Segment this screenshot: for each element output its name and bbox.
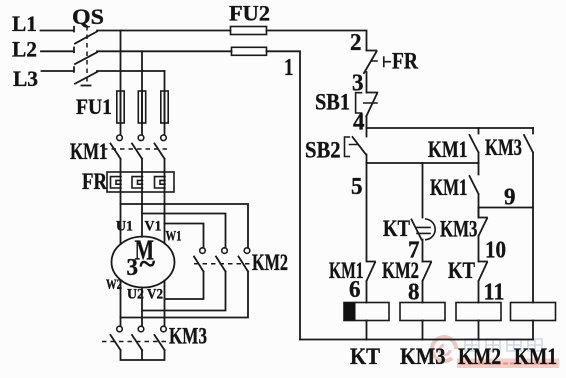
wire V2 drop (164, 281, 166, 327)
svg-text:KT: KT (448, 258, 475, 283)
wire node 9 (479, 207, 534, 209)
svg-text:V2: V2 (147, 287, 163, 303)
wire W1 to KM2 pole 1 (165, 224, 204, 248)
svg-text:L3: L3 (13, 66, 38, 91)
coil KM2 (456, 303, 501, 321)
contactor KM1 main pole 2 (138, 135, 144, 141)
svg-text:QS: QS (72, 4, 104, 29)
switch QS pole 1 (75, 31, 231, 44)
wire node 4 (367, 127, 534, 129)
svg-text:KT: KT (383, 216, 410, 241)
wire bottom bus (300, 339, 533, 341)
switch QS linkage (86, 26, 88, 82)
svg-text:KM1: KM1 (428, 137, 468, 162)
svg-text:FR: FR (392, 49, 418, 74)
contact KT interlock (479, 262, 488, 303)
wire L3 lead (42, 67, 75, 72)
contact KM3 top (524, 128, 533, 303)
wire V2 to KM2 pole 1 (165, 272, 204, 300)
FR heater element 1 (111, 177, 122, 188)
svg-text:KM3: KM3 (169, 324, 207, 349)
svg-text:~: ~ (140, 248, 156, 281)
wire U1 to KM2 pole 3 (121, 204, 249, 248)
svg-text:4: 4 (353, 110, 365, 136)
wire W2 drop (120, 280, 122, 326)
FR heater element 2 (132, 177, 143, 188)
svg-text:KM2: KM2 (252, 250, 288, 275)
svg-text:KT: KT (350, 344, 380, 369)
contactor KM1 main pole 3 (161, 135, 167, 141)
wire U2 to KM2 pole 2 (142, 272, 226, 311)
contact KM1 latch (470, 128, 479, 163)
watermark text (465, 339, 542, 351)
svg-text:KM1: KM1 (430, 175, 468, 200)
svg-text:W1: W1 (166, 229, 182, 245)
svg-text:FU2: FU2 (229, 1, 270, 26)
contact KM1 interlock (367, 163, 376, 303)
wire L2 lead (41, 48, 74, 53)
wire node 2 top (267, 31, 367, 51)
KM1 main linkage (103, 148, 169, 150)
svg-text:3: 3 (127, 255, 139, 281)
coil KT (344, 303, 389, 321)
wire L1 lead (41, 27, 75, 32)
svg-text:6: 6 (349, 277, 361, 303)
svg-text:1: 1 (284, 55, 294, 81)
coil KM3 (400, 303, 445, 321)
svg-text:KM1: KM1 (70, 139, 108, 164)
switch QS pole 2 (75, 51, 232, 64)
time relay KT delayed contact (412, 220, 423, 262)
svg-text:8: 8 (408, 280, 420, 306)
wire col B upper (422, 163, 424, 218)
contactor KM3 pole 2 (138, 326, 144, 332)
contact KM3 interlock (479, 208, 488, 262)
wire W2 to KM2 pole 3 (121, 272, 249, 318)
svg-text:KM2: KM2 (458, 344, 501, 369)
svg-text:5: 5 (351, 174, 363, 200)
contact KM2 interlock (423, 262, 432, 303)
svg-text:L2: L2 (12, 37, 37, 62)
svg-text:10: 10 (485, 238, 506, 264)
wire node 5 (367, 162, 479, 164)
watermark logo (432, 337, 456, 361)
svg-text:FU1: FU1 (76, 94, 112, 119)
contactor KM2 pole 3 (244, 248, 250, 254)
fuse FU2-1 (231, 27, 267, 35)
fuse FU2-2 (232, 47, 267, 55)
wire U2 drop (141, 288, 143, 327)
contactor KM3 pole 1 (117, 326, 123, 332)
fuse FU1-1 (117, 91, 124, 123)
wire phase A drop (120, 31, 122, 135)
svg-text:11: 11 (484, 280, 505, 306)
KM2 linkage (194, 263, 250, 265)
contactor KM2 pole 2 (222, 248, 228, 254)
fuse FU1-2 (138, 91, 145, 123)
watermark banner (457, 359, 559, 369)
coil KM1 (511, 303, 556, 321)
svg-text:U1: U1 (116, 219, 133, 235)
FR heater element 3 (155, 177, 166, 188)
thermal relay FR box (107, 172, 174, 192)
wire W1 (164, 159, 166, 244)
contactor KM3 pole 3 (161, 326, 167, 332)
KM3 linkage (102, 341, 168, 343)
svg-text:KM3: KM3 (400, 344, 446, 369)
wire phase C drop (164, 71, 166, 135)
contactor KM2 pole 1 (200, 248, 206, 254)
svg-text:SB1: SB1 (315, 90, 350, 115)
motor M (112, 237, 175, 288)
svg-text:SB2: SB2 (305, 138, 341, 163)
svg-text:V1: V1 (145, 219, 162, 235)
svg-text:KM1: KM1 (514, 344, 557, 369)
FR trip symbol (371, 57, 390, 67)
svg-text:2: 2 (350, 30, 362, 56)
svg-text:KM3: KM3 (440, 217, 478, 242)
thermal relay FR contact (364, 51, 377, 93)
svg-text:KM3: KM3 (485, 135, 522, 160)
wire star point (121, 350, 165, 360)
fuse FU1-3 (161, 91, 168, 123)
svg-text:FR: FR (82, 169, 107, 194)
wire U1 (120, 159, 122, 245)
wire node 1 drop (267, 51, 301, 339)
contact KM1 mid (470, 163, 479, 218)
wire V1 to KM2 pole 2 (142, 214, 226, 248)
wire V1 (141, 159, 143, 237)
svg-text:L1: L1 (12, 11, 37, 36)
contactor KM1 main pole 1 (117, 135, 123, 141)
wire phase B drop (141, 51, 143, 134)
switch QS pole 3 (75, 71, 165, 84)
